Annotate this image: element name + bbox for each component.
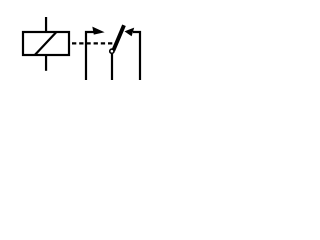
actuation arrowhead (swept, pointing left) toward lever — [125, 28, 135, 37]
wire: common pole lead below pivot — [111, 54, 113, 80]
actuation arrowhead (swept, pointing right) on left contact — [92, 27, 104, 35]
relay coil slash — [35, 32, 57, 55]
fixed contact left: vertical lead with corner to arrow shaft — [86, 32, 95, 80]
movable contact lever (armature) — [113, 25, 124, 51]
wire: coil top lead — [45, 17, 47, 32]
pivot circle of movable contact — [110, 49, 114, 53]
relay coil K1 box — [23, 32, 69, 55]
wire: coil bottom lead — [45, 55, 47, 71]
mechanical link (dashed) from coil to lever — [72, 42, 112, 44]
fixed contact right: arrow shaft with corner to vertical lead — [133, 32, 140, 80]
